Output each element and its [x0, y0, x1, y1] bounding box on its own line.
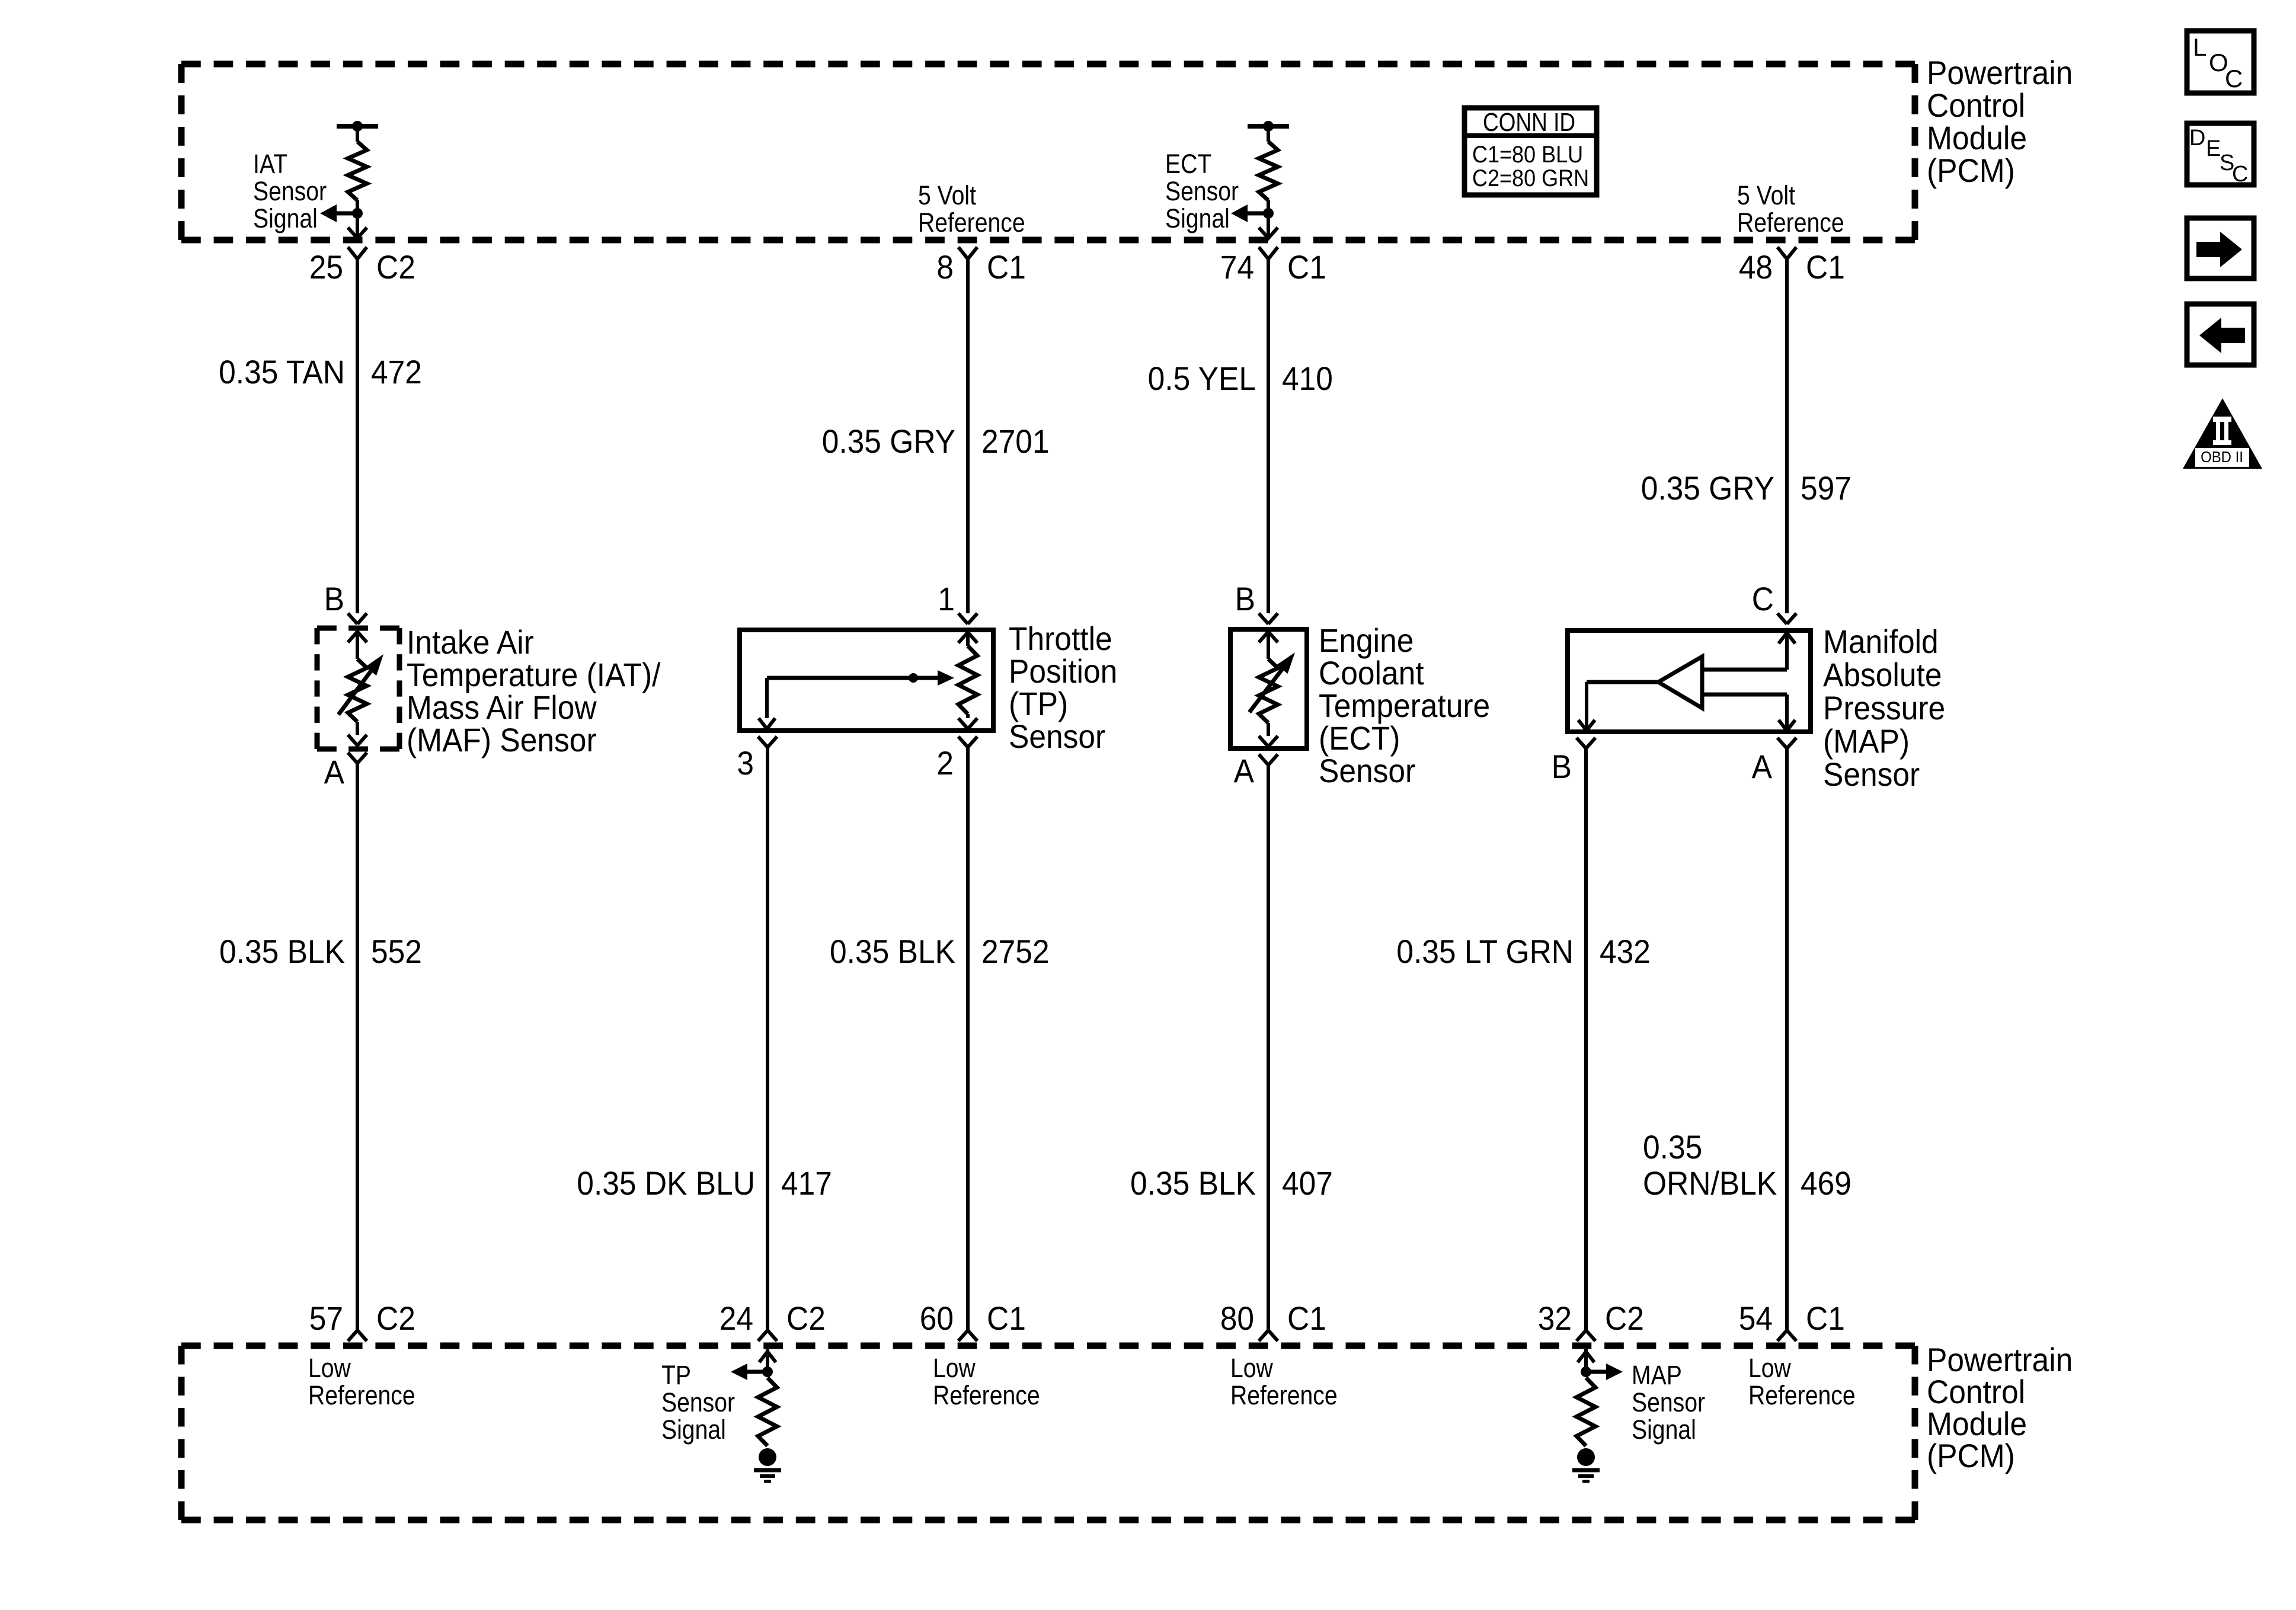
wire 2701 - pin 8 to TP sensor 1 — [966, 259, 970, 613]
label: Powertrain Control Module (PCM) - bottom — [1927, 1341, 2073, 1474]
svg-text:C2: C2 — [376, 1299, 415, 1337]
svg-text:B: B — [324, 580, 344, 617]
label: 0.35 ORN/BLK 469 — [1643, 1128, 1851, 1202]
svg-text:410: 410 — [1282, 360, 1333, 397]
svg-text:0.35: 0.35 — [1643, 1128, 1702, 1166]
ECT sensor signal arrow (left) — [1231, 204, 1268, 222]
node B - harness connector — [1259, 613, 1278, 624]
svg-text:0.35 BLK: 0.35 BLK — [1130, 1164, 1256, 1202]
ECT thermistor (variable resistor) — [1259, 659, 1278, 736]
svg-text:Intake Air: Intake Air — [407, 623, 534, 661]
wire 407 - ECT A to pin 80 — [1267, 765, 1270, 1330]
svg-text:C2: C2 — [786, 1299, 826, 1337]
CONN ID table — [1462, 108, 1599, 195]
ECT variable arrow (diagonal) — [1249, 652, 1295, 712]
svg-text:0.35 GRY: 0.35 GRY — [1641, 469, 1774, 507]
wire 472 - pin 25 to IAT sensor B — [356, 259, 359, 613]
svg-text:0.35 BLK: 0.35 BLK — [219, 933, 345, 970]
wire - IAT signal to pin 25 with down arrow — [348, 213, 367, 238]
svg-text:C: C — [2225, 65, 2243, 92]
ground - TP input load — [754, 1448, 781, 1481]
svg-text:Absolute: Absolute — [1823, 656, 1942, 693]
svg-text:A: A — [1234, 752, 1255, 789]
svg-text:80: 80 — [1220, 1299, 1254, 1337]
svg-text:B: B — [1552, 748, 1572, 785]
svg-text:Sensor: Sensor — [253, 176, 327, 206]
label: Low Reference (pin 54) — [1748, 1353, 1856, 1410]
IAT/MAF thermistor lead up arrow — [348, 632, 367, 659]
MAP amplifier output to pin B — [1578, 682, 1658, 734]
svg-text:Sensor: Sensor — [1165, 176, 1239, 206]
svg-text:2752: 2752 — [981, 933, 1050, 970]
svg-text:C1: C1 — [1287, 248, 1326, 286]
svg-text:B: B — [1235, 580, 1255, 617]
TP potentiometer resistor — [958, 646, 977, 718]
label: Manifold Absolute Pressure (MAP) Sensor — [1823, 623, 1945, 793]
svg-text:2: 2 — [936, 744, 954, 782]
svg-text:L: L — [2193, 33, 2207, 61]
MAP amplifier lower line to pin A — [1702, 694, 1795, 734]
IAT/MAF thermistor lead down arrow — [348, 735, 367, 745]
svg-text:Temperature (IAT)/: Temperature (IAT)/ — [407, 656, 661, 693]
wire 417 - TP 3 to pin 24 — [766, 747, 769, 1330]
junction dot - TP signal — [762, 1366, 773, 1377]
pin 3 connector - TP — [758, 737, 768, 747]
MAP sensor signal arrow (right) — [1586, 1363, 1623, 1380]
svg-text:(MAF) Sensor: (MAF) Sensor — [407, 721, 597, 758]
svg-text:OBD II: OBD II — [2201, 448, 2243, 466]
icon: LOC box — [2187, 31, 2254, 93]
svg-text:472: 472 — [371, 353, 422, 391]
wire 552 - IAT A to pin 57 — [356, 763, 359, 1330]
resistor - TP input load — [758, 1378, 777, 1446]
label: 0.35 GRY 597 — [1641, 469, 1851, 507]
label: TP Sensor Signal — [661, 1360, 735, 1445]
svg-text:Reference: Reference — [308, 1380, 415, 1410]
svg-text:Signal: Signal — [253, 203, 318, 233]
label: 0.35 GRY 2701 — [822, 422, 1050, 460]
IAT sensor signal arrow (left) — [320, 204, 357, 222]
ECT thermistor lead up arrow — [1259, 632, 1278, 659]
icon: DESC box — [2187, 123, 2254, 187]
pin 25 C2 (PCM top connector) — [309, 247, 415, 286]
svg-text:E: E — [2206, 136, 2221, 161]
label: 0.35 BLK 552 — [219, 933, 422, 970]
resistor - IAT pull-up — [348, 126, 367, 213]
svg-text:0.5 YEL: 0.5 YEL — [1148, 360, 1256, 397]
label: Low Reference (pin 60) — [933, 1353, 1040, 1410]
svg-text:C: C — [1752, 580, 1774, 617]
svg-text:TP: TP — [661, 1360, 691, 1390]
svg-text:24: 24 — [720, 1299, 753, 1337]
pin 74 C1 (PCM top connector) — [1220, 247, 1326, 286]
label: 0.5 YEL 410 — [1148, 360, 1333, 397]
svg-text:Reference: Reference — [1737, 207, 1844, 238]
svg-text:A: A — [1752, 748, 1773, 785]
svg-text:C1: C1 — [987, 1299, 1026, 1337]
svg-text:Throttle: Throttle — [1009, 620, 1112, 657]
svg-text:Mass Air Flow: Mass Air Flow — [407, 689, 597, 726]
label: Throttle Position (TP) Sensor — [1009, 620, 1117, 755]
pin 24 C2 (PCM bottom connector) — [720, 1299, 826, 1341]
label: 0.35 TAN 472 — [219, 353, 422, 391]
svg-text:Sensor: Sensor — [1823, 756, 1920, 793]
svg-text:C: C — [2232, 162, 2248, 187]
junction dot - ECT bus — [1263, 121, 1274, 132]
svg-text:Reference: Reference — [933, 1380, 1040, 1410]
svg-text:0.35 DK BLU: 0.35 DK BLU — [577, 1164, 755, 1202]
node C - harness connector — [1777, 613, 1796, 624]
label: ECT Sensor Signal — [1165, 149, 1239, 233]
label: Engine Coolant Temperature (ECT) Sensor — [1319, 622, 1490, 789]
label: 5 Volt Reference (pin 48) — [1737, 180, 1844, 238]
junction dot - MAP signal — [1581, 1366, 1591, 1377]
wire 410 - pin 74 to ECT sensor B — [1267, 259, 1270, 613]
svg-text:Pressure: Pressure — [1823, 689, 1945, 726]
svg-text:C1: C1 — [1287, 1299, 1326, 1337]
svg-text:Low: Low — [933, 1353, 976, 1383]
svg-text:74: 74 — [1220, 248, 1254, 286]
label: Low Reference (pin 80) — [1230, 1353, 1338, 1410]
ECT thermistor lead down arrow — [1259, 736, 1278, 747]
wire 2752 - TP 2 to pin 60 — [966, 747, 970, 1330]
TP potentiometer up arrow — [958, 632, 977, 646]
label: 0.35 BLK 2752 — [830, 933, 1050, 970]
MAP pin C lead with up arrow — [1779, 628, 1795, 670]
pin 48 C1 (PCM top connector) — [1739, 247, 1845, 286]
TP wiper arm with junction dot — [767, 670, 954, 686]
node 1 - harness connector — [958, 613, 977, 624]
svg-text:0.35 LT GRN: 0.35 LT GRN — [1396, 933, 1574, 970]
svg-text:2701: 2701 — [981, 422, 1050, 460]
pin 8 C1 (PCM top connector) — [936, 247, 1026, 286]
svg-text:Reference: Reference — [918, 207, 1025, 238]
TP sensor signal arrow (left) — [731, 1363, 768, 1380]
svg-text:C1=80 BLU: C1=80 BLU — [1472, 142, 1583, 168]
svg-text:Coolant: Coolant — [1319, 654, 1424, 692]
resistor - ECT pull-up — [1259, 126, 1278, 213]
svg-text:0.35 GRY: 0.35 GRY — [822, 422, 955, 460]
PCM top module box (dashed) — [181, 61, 1915, 68]
wire 469 - MAP A to pin 54 — [1785, 748, 1789, 1330]
svg-text:ECT: ECT — [1165, 149, 1211, 179]
svg-text:5 Volt: 5 Volt — [918, 180, 976, 210]
svg-text:(PCM): (PCM) — [1927, 1437, 2015, 1474]
svg-text:8: 8 — [936, 248, 954, 286]
wire - ECT signal to pin 74 with down arrow — [1259, 213, 1278, 238]
svg-text:(TP): (TP) — [1009, 685, 1068, 722]
pin 57 C2 (PCM bottom connector) — [309, 1299, 415, 1341]
svg-text:3: 3 — [737, 744, 754, 782]
label: Powertrain Control Module (PCM) - top — [1927, 54, 2073, 189]
label: 5 Volt Reference (pin 8) — [918, 180, 1025, 238]
pin 80 C1 (PCM bottom connector) — [1220, 1299, 1326, 1341]
svg-text:IAT: IAT — [253, 149, 287, 179]
icon: forward arrow box — [2187, 218, 2254, 279]
svg-text:(ECT): (ECT) — [1319, 719, 1400, 757]
TP signal entry with up arrow (pin 24) — [759, 1349, 776, 1372]
svg-text:54: 54 — [1739, 1299, 1773, 1337]
pin 60 C1 (PCM bottom connector) — [920, 1299, 1026, 1341]
node B - harness connector — [348, 613, 367, 624]
IAT/MAF sensor box (dashed) — [317, 626, 399, 631]
svg-text:Sensor: Sensor — [1009, 718, 1105, 755]
svg-text:Control: Control — [1927, 87, 2025, 124]
ground - MAP input load — [1572, 1448, 1600, 1481]
svg-text:432: 432 — [1600, 933, 1651, 970]
node A connector - IAT/MAF — [348, 753, 357, 763]
svg-text:(PCM): (PCM) — [1927, 152, 2015, 189]
svg-text:Low: Low — [1230, 1353, 1273, 1383]
svg-text:Powertrain: Powertrain — [1927, 54, 2073, 91]
svg-text:48: 48 — [1739, 248, 1773, 286]
ECT sensor box — [1230, 629, 1307, 748]
TP sensor box — [740, 630, 993, 731]
svg-text:57: 57 — [309, 1299, 343, 1337]
svg-text:0.35 BLK: 0.35 BLK — [830, 933, 955, 970]
label: 0.35 DK BLU 417 — [577, 1164, 832, 1202]
svg-text:C1: C1 — [1806, 248, 1845, 286]
IAT/MAF thermistor (variable resistor) — [348, 659, 367, 735]
svg-text:Sensor: Sensor — [1319, 752, 1415, 789]
node A connector - MAP — [1777, 738, 1787, 748]
node B connector - MAP — [1576, 738, 1586, 748]
svg-text:C2=80 GRN: C2=80 GRN — [1472, 165, 1589, 191]
svg-text:C2: C2 — [376, 248, 415, 286]
svg-text:A: A — [324, 753, 345, 790]
MAP signal entry with up arrow (pin 32) — [1578, 1349, 1594, 1372]
pin 54 C1 (PCM bottom connector) — [1739, 1299, 1845, 1341]
node A connector - ECT — [1259, 754, 1268, 765]
label: Low Reference (pin 57) — [308, 1353, 415, 1410]
svg-text:Low: Low — [1748, 1353, 1791, 1383]
wire 432 - MAP B to pin 32 — [1584, 748, 1588, 1330]
MAP sensor box — [1568, 630, 1811, 732]
svg-text:Position: Position — [1009, 652, 1117, 690]
svg-text:Engine: Engine — [1319, 622, 1414, 659]
TP wiper lead down arrow to pin 3 — [759, 678, 775, 729]
svg-text:407: 407 — [1282, 1164, 1333, 1202]
MAP amplifier input line (upper) — [1702, 668, 1787, 672]
svg-text:Reference: Reference — [1748, 1380, 1856, 1410]
resistor - MAP input load — [1576, 1378, 1595, 1446]
label: Intake Air Temperature (IAT)/ Mass Air Flow (MAF) Sensor — [407, 623, 661, 758]
IAT pull-up 5V bus stub — [337, 124, 378, 129]
svg-text:(MAP): (MAP) — [1823, 722, 1910, 760]
svg-text:D: D — [2189, 126, 2205, 151]
svg-text:C1: C1 — [1806, 1299, 1845, 1337]
pin 32 C2 (PCM bottom connector) — [1538, 1299, 1644, 1341]
TP potentiometer down arrow — [958, 718, 977, 729]
svg-text:Sensor: Sensor — [661, 1387, 735, 1417]
svg-text:552: 552 — [371, 933, 422, 970]
svg-text:417: 417 — [781, 1164, 832, 1202]
IAT/MAF variable arrow (diagonal) — [338, 654, 383, 715]
label: 0.35 BLK 407 — [1130, 1164, 1333, 1202]
label: 0.35 LT GRN 432 — [1396, 933, 1651, 970]
svg-text:Signal: Signal — [1165, 203, 1230, 233]
svg-text:Low: Low — [308, 1353, 351, 1383]
svg-text:Manifold: Manifold — [1823, 623, 1939, 660]
svg-text:Temperature: Temperature — [1319, 687, 1490, 724]
icon: back arrow box — [2187, 304, 2254, 365]
wire 597 - pin 48 to MAP sensor C — [1785, 259, 1789, 613]
label: IAT Sensor Signal — [253, 149, 327, 233]
svg-text:5 Volt: 5 Volt — [1737, 180, 1795, 210]
svg-text:Module: Module — [1927, 119, 2027, 156]
svg-text:1: 1 — [938, 580, 955, 617]
svg-text:C2: C2 — [1605, 1299, 1644, 1337]
junction dot - ECT signal node — [1263, 208, 1274, 219]
svg-text:597: 597 — [1801, 469, 1851, 507]
junction dot - IAT signal node — [352, 208, 363, 219]
svg-text:0.35 TAN: 0.35 TAN — [219, 353, 345, 391]
label: MAP Sensor Signal — [1632, 1360, 1705, 1445]
svg-text:ORN/BLK: ORN/BLK — [1643, 1164, 1777, 1202]
svg-text:MAP: MAP — [1632, 1360, 1682, 1390]
svg-text:32: 32 — [1538, 1299, 1572, 1337]
junction dot - IAT bus — [352, 121, 363, 132]
PCM bottom module box (dashed) — [181, 1343, 1915, 1349]
MAP amplifier triangle — [1658, 657, 1702, 708]
icon: OBD II triangle — [2183, 398, 2262, 469]
svg-text:60: 60 — [920, 1299, 954, 1337]
svg-text:C1: C1 — [987, 248, 1026, 286]
svg-text:Sensor: Sensor — [1632, 1387, 1705, 1417]
svg-text:CONN ID: CONN ID — [1483, 108, 1575, 137]
svg-text:Signal: Signal — [661, 1414, 726, 1445]
svg-text:25: 25 — [309, 248, 343, 286]
ECT pull-up 5V bus stub — [1248, 124, 1289, 129]
svg-text:469: 469 — [1801, 1164, 1851, 1202]
svg-text:Reference: Reference — [1230, 1380, 1338, 1410]
pin 2 connector - TP — [958, 737, 968, 747]
svg-text:Signal: Signal — [1632, 1414, 1696, 1445]
